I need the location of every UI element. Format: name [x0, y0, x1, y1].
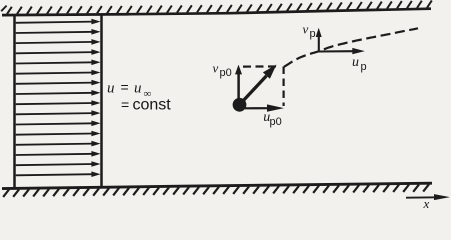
arrow : resultant initial velocity vector — [242, 65, 277, 103]
svg-text:u: u — [134, 81, 142, 97]
arrow : u_p0 vector — [245, 104, 284, 111]
arrow : velocity profile arrow 1 — [16, 19, 101, 25]
wire : top wall line — [2, 9, 431, 15]
arrow : velocity profile arrow 15 — [16, 161, 101, 167]
label : = const — [121, 97, 171, 114]
wire : dashed parallelogram top edge — [243, 65, 280, 67]
arrow : velocity profile arrow 14 — [16, 151, 101, 157]
arrow : velocity profile arrow 12 — [16, 131, 101, 137]
arrow : velocity profile arrow 16 — [16, 171, 101, 177]
wire : dashed parallelogram right edge — [283, 67, 285, 107]
arrow : velocity profile arrow 6 — [16, 70, 101, 76]
arrow : velocity profile arrow 10 — [16, 110, 101, 116]
top wall hatching — [1, 6, 6, 12]
label : v_p — [303, 21, 316, 40]
arrow : velocity profile arrow 4 — [16, 49, 101, 55]
svg-text:v: v — [213, 60, 219, 75]
arrow : v_p0 vector — [235, 65, 242, 101]
arrow : v_p vector — [316, 28, 322, 52]
svg-text:x: x — [423, 196, 430, 210]
svg-text:p: p — [310, 28, 316, 40]
wire : dashed trajectory curve — [284, 28, 418, 67]
arrow : velocity profile arrow 7 — [16, 80, 101, 86]
svg-text:p0: p0 — [270, 116, 282, 128]
arrow : velocity profile arrow 3 — [16, 39, 101, 45]
arrow : u_p vector — [319, 48, 365, 54]
arrow : velocity profile arrow 11 — [16, 121, 101, 127]
label : u_p0 — [263, 110, 282, 128]
label : v_p0 — [213, 60, 232, 79]
svg-text:=: = — [121, 97, 129, 113]
arrow : velocity profile arrow 13 — [16, 141, 101, 147]
svg-text:v: v — [303, 21, 309, 36]
svg-text:=: = — [121, 79, 129, 95]
wire : profile left vertical line — [13, 15, 16, 188]
svg-text:const: const — [133, 97, 172, 114]
label : u = u_infinity — [107, 79, 152, 100]
svg-text:p: p — [361, 61, 367, 73]
arrow : x axis — [406, 194, 450, 200]
arrow : velocity profile arrow 9 — [16, 100, 101, 106]
wire : profile right vertical line — [100, 14, 103, 187]
ground hatching — [3, 184, 429, 197]
wire : ground line — [2, 183, 432, 188]
label : u_p — [352, 55, 367, 73]
svg-text:p0: p0 — [220, 67, 232, 79]
arrow : velocity profile arrow 8 — [16, 90, 101, 96]
arrow : velocity profile arrow 2 — [16, 29, 101, 35]
svg-text:u: u — [352, 55, 359, 70]
svg-text:u: u — [107, 81, 115, 97]
arrow : velocity profile arrow 5 — [16, 60, 101, 66]
node : particle (black dot) — [233, 98, 247, 112]
